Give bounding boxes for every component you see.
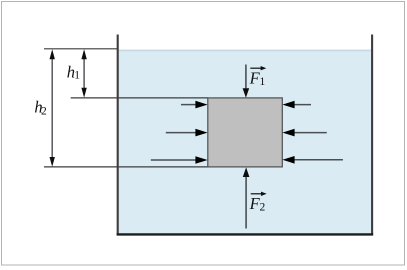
svg-text:1: 1 — [74, 69, 80, 81]
svg-text:2: 2 — [41, 106, 47, 118]
svg-text:1: 1 — [260, 76, 266, 88]
svg-text:2: 2 — [260, 201, 266, 213]
